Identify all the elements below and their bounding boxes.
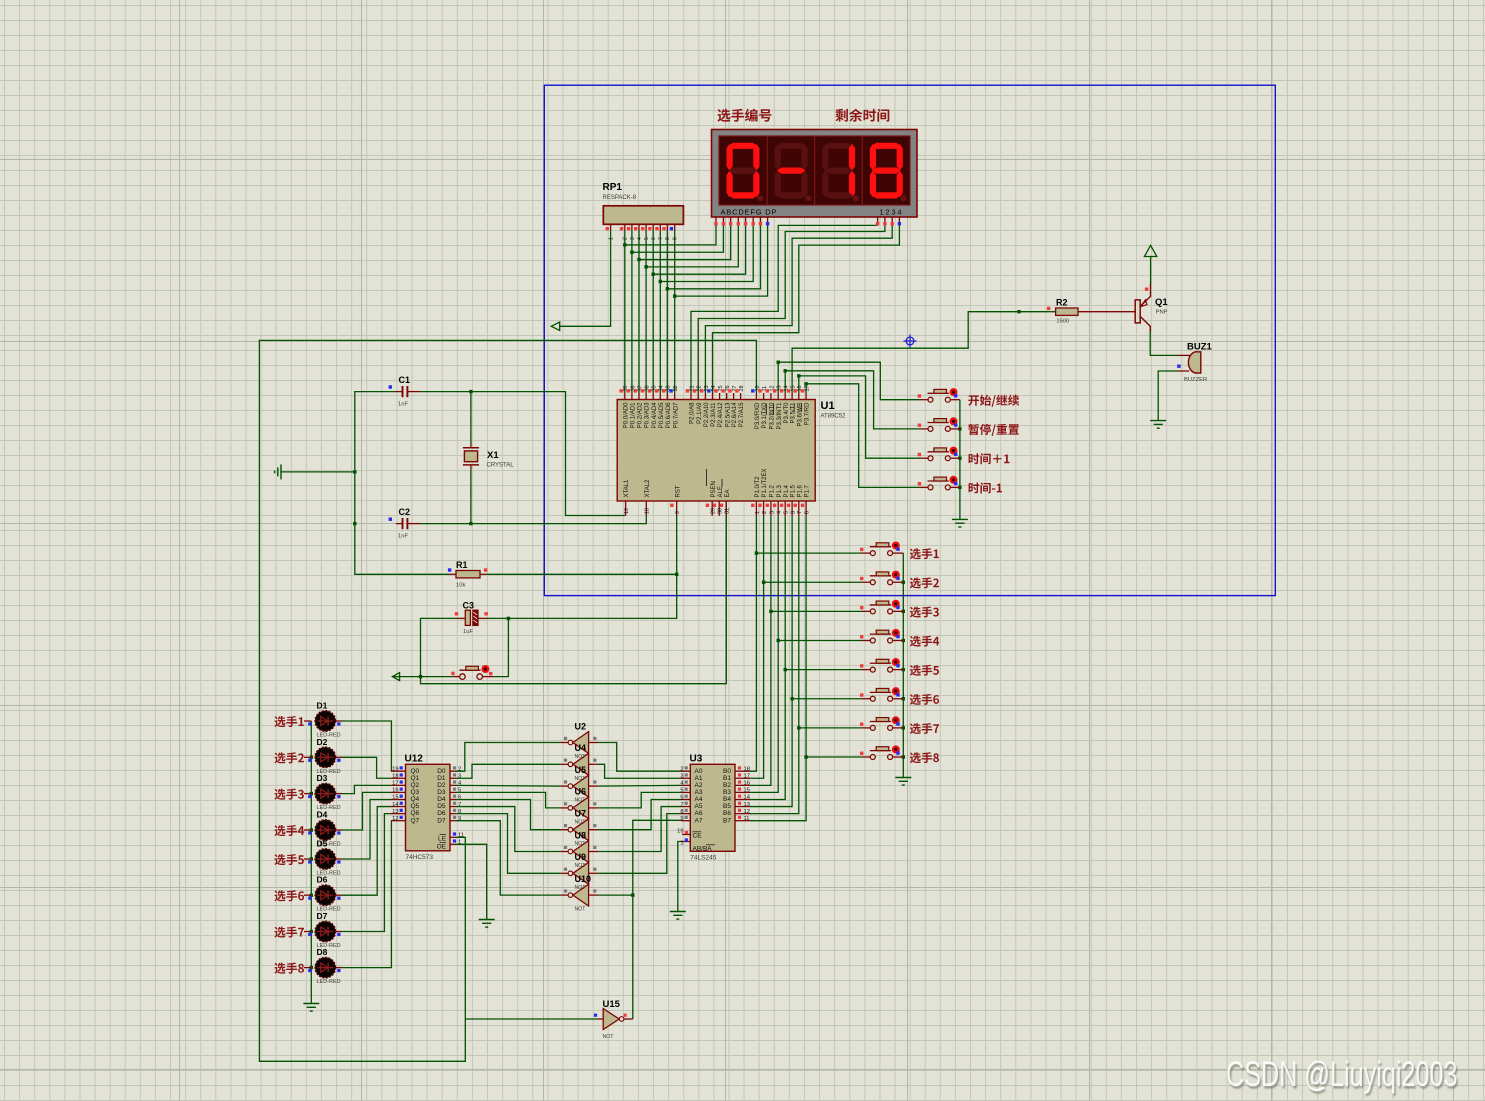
svg-text:P0.6/AD6: P0.6/AD6 bbox=[666, 402, 672, 428]
svg-text:U9: U9 bbox=[575, 852, 587, 862]
svg-text:D5: D5 bbox=[317, 839, 328, 849]
svg-text:CRYSTAL: CRYSTAL bbox=[487, 463, 515, 469]
svg-text:P1.4: P1.4 bbox=[784, 484, 790, 497]
svg-text:NOT: NOT bbox=[575, 819, 587, 825]
svg-text:P3.5/T1: P3.5/T1 bbox=[791, 402, 797, 424]
svg-text:74LS245: 74LS245 bbox=[690, 855, 716, 862]
svg-text:17: 17 bbox=[744, 773, 750, 779]
svg-text:9: 9 bbox=[673, 237, 679, 240]
svg-text:12: 12 bbox=[744, 809, 750, 815]
svg-text:74HC573: 74HC573 bbox=[406, 854, 434, 861]
svg-text:Q1: Q1 bbox=[411, 775, 420, 782]
svg-text:BUZ1: BUZ1 bbox=[1187, 342, 1213, 353]
svg-text:D3: D3 bbox=[437, 789, 446, 796]
svg-text:A5: A5 bbox=[695, 803, 703, 810]
svg-text:P0.2/AD2: P0.2/AD2 bbox=[638, 402, 644, 428]
svg-text:NOT: NOT bbox=[575, 754, 587, 760]
svg-text:CE: CE bbox=[693, 833, 703, 840]
svg-text:A0: A0 bbox=[695, 768, 703, 775]
svg-text:NOT: NOT bbox=[575, 776, 587, 782]
svg-text:RST: RST bbox=[675, 485, 681, 497]
svg-text:6: 6 bbox=[458, 795, 461, 801]
svg-text:C2: C2 bbox=[399, 507, 411, 517]
svg-text:5: 5 bbox=[680, 788, 683, 794]
svg-text:NOT: NOT bbox=[575, 798, 587, 804]
svg-text:B2: B2 bbox=[723, 782, 731, 789]
svg-text:D8: D8 bbox=[317, 947, 328, 957]
svg-text:1: 1 bbox=[458, 840, 461, 846]
svg-text:B4: B4 bbox=[723, 796, 731, 803]
svg-text:16: 16 bbox=[744, 781, 750, 787]
svg-text:P0.7/AD7: P0.7/AD7 bbox=[673, 402, 679, 428]
svg-text:7: 7 bbox=[797, 511, 803, 514]
svg-text:P3.4/T0: P3.4/T0 bbox=[784, 402, 790, 424]
svg-text:11: 11 bbox=[458, 833, 464, 839]
svg-text:9: 9 bbox=[680, 816, 683, 822]
svg-text:B1: B1 bbox=[723, 775, 731, 782]
svg-text:Q6: Q6 bbox=[411, 810, 420, 817]
svg-text:A4: A4 bbox=[695, 796, 703, 803]
svg-text:P2.3/A11: P2.3/A11 bbox=[711, 402, 717, 427]
svg-text:U1: U1 bbox=[821, 400, 835, 412]
svg-text:P3.1/TXD: P3.1/TXD bbox=[762, 402, 768, 429]
svg-text:10k: 10k bbox=[456, 583, 465, 589]
svg-text:U8: U8 bbox=[575, 830, 587, 840]
svg-text:B5: B5 bbox=[723, 803, 731, 810]
svg-text:7: 7 bbox=[458, 802, 461, 808]
svg-text:6: 6 bbox=[680, 795, 683, 801]
svg-text:C3: C3 bbox=[463, 601, 475, 611]
svg-text:8: 8 bbox=[458, 809, 461, 815]
svg-text:D6: D6 bbox=[437, 810, 446, 817]
svg-text:AB/BA: AB/BA bbox=[693, 846, 713, 853]
svg-text:15: 15 bbox=[392, 795, 398, 801]
svg-text:LED-RED: LED-RED bbox=[317, 979, 341, 985]
svg-text:3: 3 bbox=[680, 773, 683, 779]
svg-text:Q0: Q0 bbox=[411, 768, 420, 775]
svg-text:R2: R2 bbox=[1056, 298, 1068, 308]
svg-text:12: 12 bbox=[392, 816, 398, 822]
svg-text:14: 14 bbox=[392, 802, 399, 808]
svg-text:Q7: Q7 bbox=[411, 817, 420, 824]
svg-text:D2: D2 bbox=[437, 782, 446, 789]
svg-text:U3: U3 bbox=[690, 754, 703, 765]
svg-text:D5: D5 bbox=[437, 803, 446, 810]
svg-text:18: 18 bbox=[645, 508, 651, 514]
svg-text:P1.2: P1.2 bbox=[770, 484, 776, 497]
svg-text:Q1: Q1 bbox=[1155, 297, 1168, 308]
svg-text:P1.1/T2EX: P1.1/T2EX bbox=[762, 468, 768, 497]
svg-text:3: 3 bbox=[630, 237, 636, 240]
svg-text:18: 18 bbox=[744, 766, 750, 772]
svg-text:Q5: Q5 bbox=[411, 803, 420, 810]
svg-text:D3: D3 bbox=[317, 773, 328, 783]
svg-text:R1: R1 bbox=[456, 560, 468, 570]
svg-text:A1: A1 bbox=[695, 775, 703, 782]
svg-text:NOT: NOT bbox=[575, 885, 587, 891]
svg-text:19: 19 bbox=[392, 766, 398, 772]
svg-text:EA: EA bbox=[725, 489, 731, 497]
svg-text:NOT: NOT bbox=[603, 1034, 615, 1040]
svg-text:D2: D2 bbox=[317, 737, 328, 747]
svg-text:6: 6 bbox=[651, 237, 657, 240]
svg-text:7: 7 bbox=[680, 802, 683, 808]
svg-text:LE: LE bbox=[438, 835, 447, 842]
svg-text:P1.0/T2: P1.0/T2 bbox=[755, 476, 761, 498]
svg-text:D1: D1 bbox=[317, 701, 328, 711]
svg-text:P0.5/AD5: P0.5/AD5 bbox=[659, 402, 665, 428]
svg-text:P2.4/A12: P2.4/A12 bbox=[718, 402, 724, 427]
svg-text:1: 1 bbox=[680, 841, 683, 847]
svg-text:P1.6: P1.6 bbox=[797, 484, 803, 497]
svg-text:19: 19 bbox=[677, 829, 683, 835]
svg-text:C1: C1 bbox=[399, 375, 411, 385]
svg-text:1: 1 bbox=[608, 237, 614, 240]
svg-text:2: 2 bbox=[623, 237, 629, 240]
svg-text:P1.5: P1.5 bbox=[791, 484, 797, 497]
svg-text:5: 5 bbox=[458, 788, 461, 794]
svg-text:2: 2 bbox=[762, 511, 768, 514]
svg-text:P0.3/AD3: P0.3/AD3 bbox=[645, 402, 651, 428]
svg-text:X1: X1 bbox=[487, 450, 499, 461]
svg-text:NOT: NOT bbox=[575, 907, 587, 913]
svg-text:1nF: 1nF bbox=[398, 402, 408, 408]
svg-text:8: 8 bbox=[805, 511, 811, 514]
svg-text:D7: D7 bbox=[317, 911, 328, 921]
svg-text:D1: D1 bbox=[437, 775, 446, 782]
svg-text:A7: A7 bbox=[695, 817, 703, 824]
svg-text:6: 6 bbox=[791, 511, 797, 514]
svg-text:P2.7/A15: P2.7/A15 bbox=[739, 402, 745, 427]
svg-text:1uF: 1uF bbox=[463, 629, 473, 635]
svg-text:1500: 1500 bbox=[1056, 319, 1069, 325]
svg-text:17: 17 bbox=[392, 781, 398, 787]
svg-text:B7: B7 bbox=[723, 817, 731, 824]
svg-text:U7: U7 bbox=[575, 809, 587, 819]
svg-text:4: 4 bbox=[777, 511, 783, 514]
svg-text:9: 9 bbox=[458, 816, 461, 822]
svg-text:P3.2/INT0: P3.2/INT0 bbox=[770, 402, 776, 430]
svg-text:U12: U12 bbox=[405, 754, 424, 765]
svg-text:NOT: NOT bbox=[575, 863, 587, 869]
svg-text:A3: A3 bbox=[695, 789, 703, 796]
svg-text:3: 3 bbox=[458, 773, 461, 779]
svg-text:P1.7: P1.7 bbox=[805, 484, 811, 497]
svg-text:P0.0/AD0: P0.0/AD0 bbox=[623, 402, 629, 428]
svg-text:A2: A2 bbox=[695, 782, 703, 789]
svg-text:P1.3: P1.3 bbox=[777, 484, 783, 497]
svg-text:PSEN: PSEN bbox=[711, 481, 717, 497]
svg-text:ABCDEFG DP: ABCDEFG DP bbox=[721, 208, 778, 217]
svg-text:RP1: RP1 bbox=[603, 182, 623, 193]
svg-text:D4: D4 bbox=[317, 810, 328, 820]
svg-text:U2: U2 bbox=[575, 721, 587, 731]
svg-text:A6: A6 bbox=[695, 810, 703, 817]
svg-text:U6: U6 bbox=[575, 787, 587, 797]
svg-text:D0: D0 bbox=[437, 768, 446, 775]
svg-text:19: 19 bbox=[624, 508, 630, 514]
svg-text:16: 16 bbox=[392, 788, 398, 794]
svg-text:U5: U5 bbox=[575, 765, 587, 775]
svg-text:P2.1/A9: P2.1/A9 bbox=[697, 402, 703, 424]
svg-text:P2.5/A13: P2.5/A13 bbox=[725, 402, 731, 427]
svg-text:U4: U4 bbox=[575, 743, 587, 753]
svg-text:B3: B3 bbox=[723, 789, 731, 796]
svg-text:Q3: Q3 bbox=[411, 789, 420, 796]
svg-text:1 2 3 4: 1 2 3 4 bbox=[880, 208, 902, 217]
svg-text:13: 13 bbox=[744, 802, 750, 808]
svg-text:8: 8 bbox=[665, 237, 671, 240]
svg-text:B0: B0 bbox=[723, 768, 731, 775]
svg-text:P0.4/AD4: P0.4/AD4 bbox=[652, 402, 658, 428]
svg-text:3: 3 bbox=[769, 511, 775, 514]
svg-text:18: 18 bbox=[392, 773, 398, 779]
svg-text:P3.6/WR: P3.6/WR bbox=[797, 402, 803, 427]
svg-text:14: 14 bbox=[744, 795, 751, 801]
svg-text:P3.3/INT1: P3.3/INT1 bbox=[777, 402, 783, 430]
svg-text:P2.0/A8: P2.0/A8 bbox=[690, 402, 696, 424]
svg-text:4: 4 bbox=[637, 237, 643, 240]
svg-text:Q4: Q4 bbox=[411, 796, 420, 803]
svg-text:XTAL2: XTAL2 bbox=[645, 479, 651, 498]
svg-text:D4: D4 bbox=[437, 796, 446, 803]
svg-text:D6: D6 bbox=[317, 875, 328, 885]
svg-text:AT89C52: AT89C52 bbox=[821, 414, 847, 420]
svg-text:9: 9 bbox=[675, 511, 681, 514]
svg-text:7: 7 bbox=[658, 237, 664, 240]
svg-text:OE: OE bbox=[437, 843, 447, 850]
svg-text:17: 17 bbox=[805, 385, 811, 391]
svg-text:30: 30 bbox=[718, 508, 724, 514]
svg-text:P2.6/A14: P2.6/A14 bbox=[732, 402, 738, 427]
svg-text:5: 5 bbox=[784, 511, 790, 514]
svg-text:B6: B6 bbox=[723, 810, 731, 817]
svg-text:11: 11 bbox=[744, 816, 750, 822]
svg-text:31: 31 bbox=[725, 508, 731, 514]
svg-text:29: 29 bbox=[711, 508, 717, 514]
svg-text:XTAL1: XTAL1 bbox=[624, 479, 630, 498]
svg-text:U10: U10 bbox=[575, 874, 592, 884]
svg-text:NOT: NOT bbox=[575, 841, 587, 847]
svg-text:8: 8 bbox=[680, 809, 683, 815]
svg-text:15: 15 bbox=[744, 788, 750, 794]
svg-text:ALE: ALE bbox=[718, 486, 724, 497]
svg-text:1: 1 bbox=[755, 511, 761, 514]
svg-text:1nF: 1nF bbox=[398, 534, 408, 540]
svg-text:5: 5 bbox=[644, 237, 650, 240]
svg-text:P3.0/RXD: P3.0/RXD bbox=[755, 402, 761, 429]
svg-text:BUZZER: BUZZER bbox=[1184, 377, 1207, 383]
svg-text:2: 2 bbox=[680, 766, 683, 772]
svg-text:28: 28 bbox=[739, 385, 745, 391]
svg-text:13: 13 bbox=[392, 809, 398, 815]
svg-text:U15: U15 bbox=[603, 999, 621, 1010]
svg-text:Q2: Q2 bbox=[411, 782, 420, 789]
svg-text:P0.1/AD1: P0.1/AD1 bbox=[631, 402, 637, 428]
svg-text:32: 32 bbox=[673, 385, 679, 391]
svg-text:RESPACK-8: RESPACK-8 bbox=[603, 195, 637, 201]
svg-text:P2.2/A10: P2.2/A10 bbox=[704, 402, 710, 427]
svg-text:PNP: PNP bbox=[1156, 310, 1168, 316]
svg-text:D7: D7 bbox=[437, 817, 446, 824]
svg-text:P3.7/RD: P3.7/RD bbox=[805, 402, 811, 425]
svg-text:2: 2 bbox=[458, 766, 461, 772]
